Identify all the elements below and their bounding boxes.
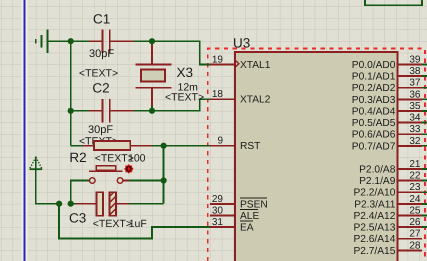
svg-text:31: 31: [212, 217, 224, 228]
wire: button right to junction: [123, 180, 164, 182]
svg-text:PSEN: PSEN: [240, 199, 268, 210]
ground: [36, 30, 48, 53]
svg-text:1uF: 1uF: [129, 218, 147, 230]
wire: XTAL1 net (junction to pin 19): [152, 41, 211, 64]
wire: RST net (junction to pin 9): [164, 145, 211, 147]
svg-text:P2.7/A15: P2.7/A15: [353, 246, 395, 257]
svg-text:19: 19: [212, 54, 224, 65]
svg-text:P2.6/A14: P2.6/A14: [353, 234, 395, 245]
svg-text:35: 35: [409, 101, 421, 112]
capacitor C2: [89, 99, 134, 122]
svg-text:XTAL2: XTAL2: [240, 95, 271, 106]
svg-text:<TEXT>: <TEXT>: [93, 218, 132, 230]
selection box around U3 (red dashed): [208, 49, 425, 261]
svg-text:25: 25: [409, 206, 421, 217]
svg-text:P0.0/AD0: P0.0/AD0: [352, 60, 396, 71]
wire: button row left: [71, 181, 90, 204]
wire: R2 right to RST junction: [152, 145, 164, 147]
svg-text:P0.2/AD2: P0.2/AD2: [352, 83, 396, 94]
svg-text:C3: C3: [69, 211, 86, 226]
wire: XTAL2 net (junction to pin 18): [152, 99, 211, 111]
pin numbers left: [212, 54, 224, 228]
svg-text:EA: EA: [240, 223, 254, 234]
clock marker XTAL1: [235, 60, 239, 67]
svg-text:21: 21: [409, 159, 421, 170]
wire: C1 left: [71, 40, 89, 42]
pin numbers right: [409, 54, 421, 251]
svg-text:22: 22: [409, 171, 421, 182]
svg-text:37: 37: [409, 78, 421, 89]
pin stubs right: [397, 64, 422, 250]
svg-text:R2: R2: [69, 150, 86, 165]
svg-text:30pF: 30pF: [89, 48, 114, 60]
svg-text:X3: X3: [177, 65, 194, 80]
wire: R2 left: [71, 145, 83, 147]
wire: C2 left: [71, 110, 89, 112]
svg-text:P2.0/A8: P2.0/A8: [359, 165, 396, 176]
wire: C2 right to junction: [133, 110, 152, 112]
pin names right: [352, 60, 396, 257]
svg-text:P0.3/AD3: P0.3/AD3: [352, 95, 396, 106]
svg-text:P0.7/AD7: P0.7/AD7: [352, 141, 396, 152]
svg-text:<TEXT>: <TEXT>: [165, 92, 204, 104]
wire: C3 right to corner: [129, 203, 164, 205]
svg-text:18: 18: [212, 89, 224, 100]
capacitor C1: [89, 30, 134, 53]
pin stubs left: [210, 64, 235, 227]
svg-text:100: 100: [128, 153, 146, 165]
button red actuator dot: [124, 164, 134, 174]
svg-text:39: 39: [409, 54, 421, 65]
push button: [89, 166, 129, 183]
wire: EA net bottom run: [59, 204, 211, 239]
svg-text:U3: U3: [233, 36, 250, 51]
svg-text:9: 9: [217, 136, 223, 147]
wire: C3 row dots to plate: [71, 203, 76, 205]
svg-text:XTAL1: XTAL1: [240, 60, 271, 71]
svg-text:P2.3/A11: P2.3/A11: [354, 199, 395, 210]
svg-text:24: 24: [409, 194, 421, 205]
svg-text:27: 27: [409, 229, 421, 240]
svg-text:38: 38: [409, 66, 421, 77]
svg-text:ALE: ALE: [240, 211, 259, 222]
capacitor C3 (polarized): [76, 192, 129, 215]
svg-text:<TEXT>: <TEXT>: [79, 68, 118, 80]
svg-text:32: 32: [409, 136, 421, 147]
svg-text:29: 29: [212, 194, 224, 205]
sheet border blue line: [21, 0, 27, 261]
svg-text:30pF: 30pF: [88, 124, 113, 136]
svg-text:23: 23: [409, 182, 421, 193]
junction dots: [56, 38, 167, 207]
wire: C1 right to junction: [133, 40, 152, 42]
svg-text:RST: RST: [240, 141, 260, 152]
svg-text:36: 36: [409, 89, 421, 100]
wire: top right loop: [365, 0, 422, 5]
op chip U3 body: [235, 52, 398, 261]
wire: vertical x=163.6 (RST junction down to C3 corner): [163, 146, 165, 204]
svg-text:P0.5/AD5: P0.5/AD5: [352, 118, 396, 129]
power symbol (up triangle): [29, 157, 42, 171]
wire: power symbol down to C3 row: [36, 169, 59, 204]
pin names left: [240, 60, 271, 234]
svg-text:C2: C2: [92, 81, 109, 96]
svg-text:28: 28: [409, 240, 421, 251]
svg-text:P0.4/AD4: P0.4/AD4: [352, 106, 396, 117]
svg-text:P2.1/A9: P2.1/A9: [359, 176, 396, 187]
pin name overlines PSEN ALE EA: [240, 198, 267, 221]
crystal X3: [135, 41, 171, 111]
svg-text:P2.4/A12: P2.4/A12: [353, 211, 395, 222]
svg-text:P0.1/AD1: P0.1/AD1: [352, 72, 396, 83]
svg-text:P0.6/AD6: P0.6/AD6: [352, 130, 396, 141]
svg-text:P2.5/A13: P2.5/A13: [353, 223, 395, 234]
svg-text:33: 33: [409, 124, 421, 135]
svg-text:30: 30: [212, 206, 224, 217]
resistor R2: [82, 141, 152, 150]
wire: left vertical bus x=70.7 (C1 row to C2 row to R2): [70, 41, 72, 146]
wire: ground to C1 junction: [48, 40, 71, 42]
svg-text:C1: C1: [93, 12, 110, 27]
svg-text:P2.2/A10: P2.2/A10: [353, 188, 395, 199]
svg-text:34: 34: [409, 113, 421, 124]
wires: right pin tips: [422, 64, 427, 227]
svg-text:26: 26: [409, 217, 421, 228]
